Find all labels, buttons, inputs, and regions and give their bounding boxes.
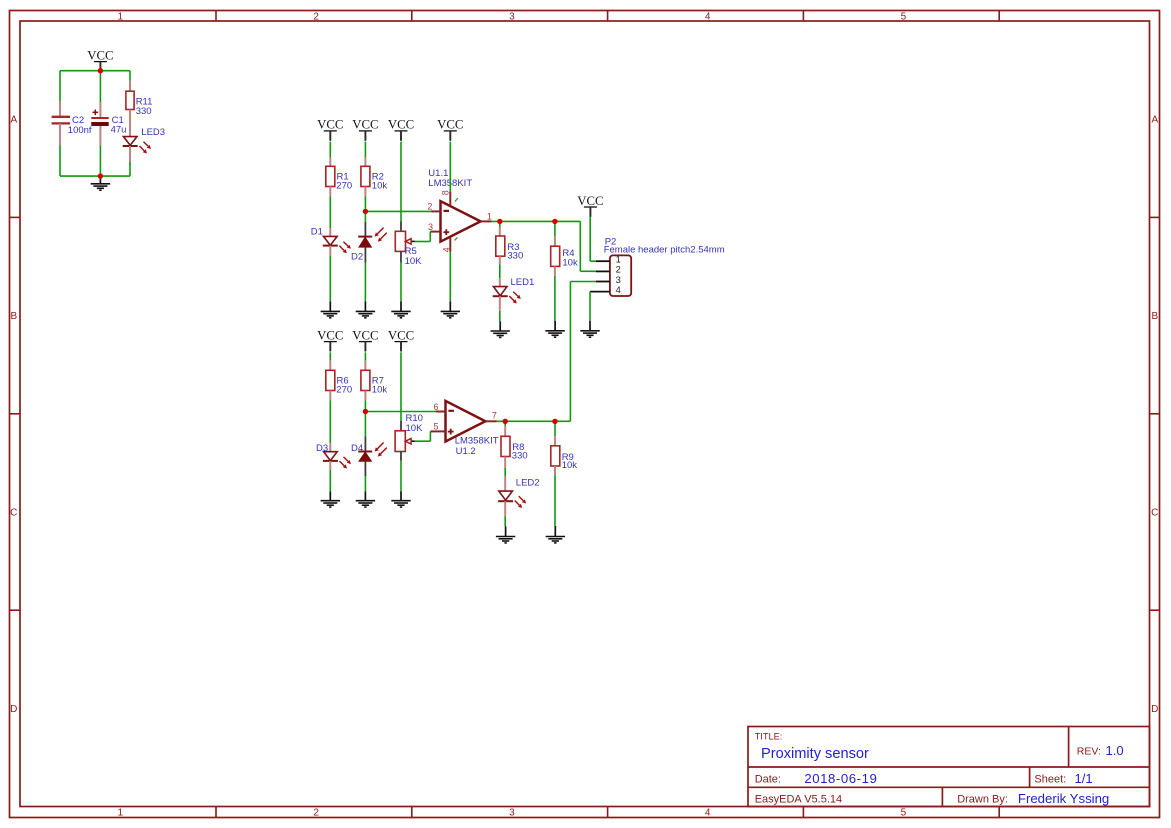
svg-text:7: 7 [492,411,497,421]
resistor R2 10k [361,166,370,186]
LED LED2 [499,491,513,500]
U1.2 minus symbol [448,410,454,412]
svg-text:10k: 10k [372,181,388,192]
U1.2 pin 6 stub [436,411,446,413]
svg-text:C: C [10,507,17,518]
photodiode D2 [364,222,366,237]
svg-text:EasyEDA V5.5.14: EasyEDA V5.5.14 [755,793,842,805]
title block border [748,727,1150,807]
op-amp U1.1 LM358KIT [441,201,481,242]
wire R2 to node [364,187,366,197]
U1.2 pin 5 stub [430,430,445,432]
ground (D4) [364,492,366,501]
svg-text:VCC: VCC [577,194,603,208]
svg-text:D1: D1 [311,227,323,238]
svg-text:A: A [10,115,17,126]
svg-text:2018-06-19: 2018-06-19 [804,771,877,786]
potentiometer R5 10K [395,231,405,251]
node output-R9 junction [552,419,557,424]
wire R5 wiper to U1.1 pin3 [415,241,430,243]
resistor R9 10k [551,446,560,466]
svg-text:D: D [1151,704,1158,715]
wire R3 to LED1 [499,256,501,264]
svg-text:Female header pitch2.54mm: Female header pitch2.54mm [604,244,725,255]
svg-text:10k: 10k [562,258,578,269]
svg-text:2: 2 [616,265,621,275]
wire R10 to ground [400,452,402,461]
wire R6 to D3 [329,391,331,401]
svg-text:VCC: VCC [317,328,343,342]
svg-text:270: 270 [336,385,352,396]
svg-text:5: 5 [901,11,907,22]
LED D3 (IR emitter) [324,452,338,461]
wire output to R3 [499,221,501,226]
node output-R8 junction [503,419,508,424]
wire C2 to bottom rail [59,123,61,145]
svg-text:B: B [10,311,17,322]
resistor R7 10k [361,370,370,390]
svg-text:330: 330 [136,106,152,117]
ground (D3) [329,492,331,501]
wire R9 to ground [554,466,556,475]
svg-text:2: 2 [427,202,432,212]
U1.1 pin 8 name mark [455,198,458,201]
svg-text:LED1: LED1 [511,277,535,288]
P2 pin 4 [590,291,610,293]
resistor R4 10k [551,246,560,266]
ground (D1) [329,301,331,311]
svg-text:1: 1 [616,254,621,264]
ground (LED1) [499,322,501,332]
U1.1 pin 8 stub to VCC [449,142,451,192]
svg-text:5: 5 [901,808,907,819]
svg-text:VCC: VCC [388,118,414,132]
svg-text:TITLE:: TITLE: [755,732,783,742]
wire D4 to ground [364,461,366,476]
svg-text:10K: 10K [406,423,424,434]
U1.1 pin 1 output stub [481,220,492,222]
svg-text:Proximity sensor: Proximity sensor [761,746,869,762]
svg-text:6: 6 [433,402,438,412]
svg-text:4: 4 [616,285,621,295]
svg-text:VCC: VCC [352,118,378,132]
wire VCC top rail [60,70,130,72]
wire VCC to R10 [400,352,402,421]
wire left branch down to C2 [59,71,61,102]
svg-text:Date:: Date: [755,774,781,786]
capacitor C1 47u polarized [93,111,99,113]
wire U1.1 output to header pin2 [492,220,581,222]
wire D3 to ground [329,461,331,470]
potentiometer R10 10K [395,431,405,452]
wire VCC to R11 [129,71,131,81]
svg-text:1: 1 [118,808,124,819]
wire bottom rail [60,175,130,177]
wire U1.1 pin4 to ground [449,252,451,302]
resistor R11 330 [126,91,134,109]
svg-text:100nf: 100nf [68,125,92,136]
svg-text:330: 330 [512,451,528,462]
svg-text:U1.2: U1.2 [456,446,476,457]
node inverting input junction [363,209,368,214]
ground (R9) [554,526,556,537]
svg-text:8: 8 [441,190,451,195]
resistor R3 330 [496,236,505,256]
U1.1 pin 3 stub [430,231,440,233]
svg-text:2: 2 [313,11,319,22]
ground (R4) [554,321,556,331]
svg-text:A: A [1151,115,1158,126]
svg-text:1.0: 1.0 [1106,743,1124,758]
wire header pin3 to U1.2 output [570,281,596,283]
wire VCC to R6 [329,352,331,361]
op-amp U1.2 LM358KIT [446,401,486,442]
svg-text:3: 3 [616,275,621,285]
U1.2 plus symbol [448,431,454,433]
svg-text:1: 1 [487,211,492,221]
svg-text:Drawn By:: Drawn By: [957,793,1008,805]
R10 wiper arrow [411,440,415,442]
svg-text:3: 3 [509,808,515,819]
wire R4 to ground [554,266,556,276]
border frame ticks and labels [215,11,217,22]
wire R8 to LED2 [504,457,506,468]
svg-text:330: 330 [507,250,523,261]
wire D1 to ground [329,246,331,256]
ground (R5) [400,301,402,311]
svg-text:10k: 10k [562,460,578,471]
svg-text:Sheet:: Sheet: [1034,774,1066,786]
svg-text:2: 2 [313,808,319,819]
svg-text:REV:: REV: [1077,746,1101,758]
svg-text:Frederik Yssing: Frederik Yssing [1018,791,1109,806]
P2 pin 3 [596,281,610,283]
ground (U1.1 pin4) [449,301,451,311]
U1.1 plus symbol [443,231,449,233]
wire output to R8 [504,421,506,426]
ground (top-left) [99,176,101,184]
svg-text:3: 3 [428,222,433,232]
ground (P2 pin4) [589,321,591,331]
wire D2 to ground [364,247,366,262]
svg-text:D3: D3 [316,443,328,454]
svg-text:LED2: LED2 [516,478,540,489]
resistor R6 270 [326,370,335,390]
ground (D2) [364,301,366,311]
wire R10 wiper to U1.2 pin5 [415,440,431,442]
wire VCC to R5 [400,142,402,222]
P2 pin 2 [596,270,610,272]
photodiode D4 [364,437,366,452]
svg-text:47u: 47u [111,125,127,136]
resistor R1 270 [326,166,335,186]
svg-text:270: 270 [336,181,352,192]
LED LED3 [123,137,137,146]
svg-text:D: D [10,704,17,715]
svg-text:VCC: VCC [437,118,463,132]
node bottom junction [98,173,103,178]
svg-text:D2: D2 [351,252,363,263]
svg-text:VCC: VCC [352,328,378,342]
U1.1 pin 2 stub [431,210,440,212]
node inverting input junction 2 [363,409,368,414]
capacitor C2 100nf [52,116,70,118]
svg-text:4: 4 [705,808,711,819]
svg-text:10K: 10K [405,256,423,267]
node VCC junction [98,68,103,73]
node output-R3 junction [497,219,502,224]
R5 wiper arrow [411,240,415,242]
svg-text:10k: 10k [372,385,388,396]
U1.1 pin 4 name mark [455,238,458,241]
svg-text:3: 3 [509,11,515,22]
connector P2 female header [610,255,631,296]
wire R5 to ground [400,251,402,262]
wire LED3 to bottom rail [129,146,131,162]
svg-text:5: 5 [433,422,438,432]
P2 pin 1 [596,260,610,262]
wire VCC to R1 [329,142,331,157]
node output-R4 junction [552,219,557,224]
wire R11 to LED3 [129,110,131,137]
wire output to R4 [554,221,556,236]
svg-text:VCC: VCC [388,328,414,342]
svg-text:VCC: VCC [87,48,113,62]
svg-text:VCC: VCC [317,118,343,132]
wire VCC to R7 [364,352,366,361]
wire output to R9 [554,421,556,436]
wire R7 to node [364,391,366,401]
resistor R8 330 [501,436,510,456]
ground (LED2) [505,526,507,536]
wire VCC to R2 [364,142,366,157]
svg-text:1: 1 [118,11,124,22]
U1.1 minus symbol [444,210,450,212]
wire C1 to bottom rail [99,126,101,146]
wire LED1 to ground [499,296,501,311]
svg-text:B: B [1151,311,1158,322]
wire VCC to header pin1 [589,217,591,261]
LED D1 (IR emitter) [324,236,338,245]
ground (R10) [400,492,402,501]
svg-text:LED3: LED3 [141,127,165,138]
wire node to U1.2 pin6 [365,411,435,413]
wire header pin4 to ground [589,292,591,321]
LED LED1 [493,287,507,296]
wire U1.2 output to header pin3 riser [497,420,571,422]
svg-text:C: C [1151,507,1158,518]
U1.1 pin 4 stub [449,237,451,252]
wire node to U1.1 pin2 [365,210,433,212]
svg-text:1/1: 1/1 [1075,771,1093,786]
wire R1 to D1 [329,187,331,197]
svg-text:D4: D4 [351,443,363,454]
U1.2 pin 7 output stub [485,420,496,422]
wire LED2 to ground [504,501,506,516]
svg-text:4: 4 [705,11,711,22]
wire VCC to C1 [99,71,101,102]
